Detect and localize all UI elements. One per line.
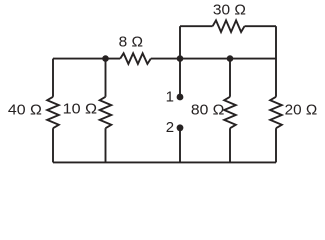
wire: 10ohm branch top lead: [105, 59, 107, 97]
circuit schematic: resistor network with terminals 1 and 2: [0, 0, 325, 167]
svg-text:80 Ω: 80 Ω: [191, 102, 225, 119]
svg-text:1: 1: [166, 89, 174, 106]
wire: terminal branch upper lead (node B down to terminal 1): [179, 59, 181, 97]
resistor 40ohm (vertical, left branch): [47, 97, 59, 128]
wire: left branch top lead: [52, 59, 54, 97]
svg-text:20 Ω: 20 Ω: [285, 102, 318, 119]
node: terminal 1 dot: [177, 94, 184, 101]
wire: 10ohm branch bottom lead: [105, 128, 107, 162]
wire: right branch top lead (loop corner through node C): [275, 26, 277, 97]
resistor 8ohm (horizontal, in main bus): [120, 53, 151, 64]
wire: left branch bottom lead: [52, 128, 54, 162]
wire: top loop right segment: [245, 25, 277, 27]
svg-text:8 Ω: 8 Ω: [119, 33, 143, 50]
resistor 20ohm (vertical, right branch): [270, 97, 282, 128]
resistor 10ohm (vertical): [100, 97, 112, 128]
resistor 80ohm (vertical): [224, 97, 236, 128]
wire: bottom return bus: [53, 161, 276, 163]
wire: 80ohm branch bottom lead: [229, 128, 231, 162]
svg-text:40 Ω: 40 Ω: [8, 101, 42, 118]
node B junction dot (terminal/30ohm riser on main bus): [177, 55, 184, 62]
wire: main horizontal bus left segment: [53, 58, 120, 60]
svg-text:30 Ω: 30 Ω: [213, 1, 246, 18]
wire: main horizontal bus right segment: [151, 58, 276, 60]
wire: riser from node B up to 30ohm loop: [179, 26, 181, 58]
resistor 30ohm (horizontal, top loop): [213, 20, 245, 32]
wire: 80ohm branch top lead: [229, 59, 231, 97]
wire: right branch bottom lead: [275, 128, 277, 162]
node: terminal 2 dot: [177, 124, 184, 131]
svg-text:10 Ω: 10 Ω: [63, 101, 98, 118]
node A junction dot (10ohm tap on main bus): [102, 55, 109, 62]
wire: top loop left segment: [180, 25, 213, 27]
svg-text:2: 2: [166, 119, 174, 136]
wire: terminal branch lower lead (terminal 2 down to bottom bus): [179, 128, 181, 163]
node C junction dot (80ohm tap on main bus): [227, 55, 234, 62]
